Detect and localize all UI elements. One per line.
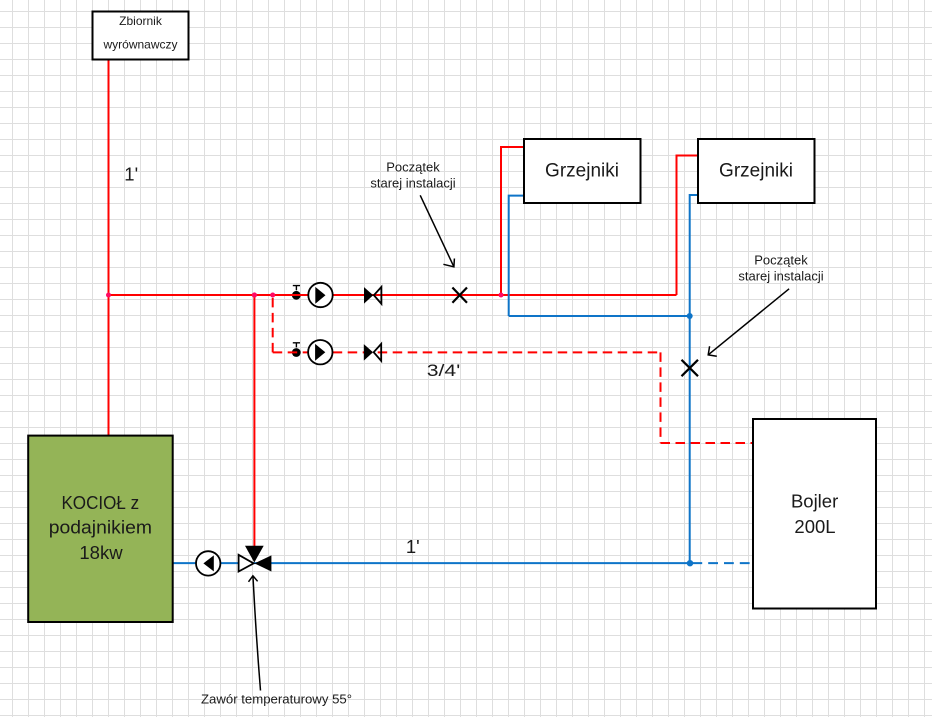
- label: Poczatek starej instalacji (right): [738, 252, 823, 283]
- node: pink junction dot left end of main red pipe: [106, 293, 111, 298]
- wire: red riser to Grzejniki 2: [677, 156, 699, 296]
- arrow from right label to X cut mark on blue riser: [708, 289, 789, 356]
- box: KOCIOL z podajnikiem 18kw (boiler): [28, 436, 173, 622]
- svg-text:Początek: Początek: [386, 159, 440, 174]
- node: pink junction dot red dashed pipe: [270, 293, 275, 298]
- svg-text:podajnikiem: podajnikiem: [49, 517, 152, 538]
- svg-text:wyrównawczy: wyrównawczy: [102, 37, 177, 51]
- wire: blue riser from Grzejniki 1: [509, 196, 524, 316]
- svg-text:starej instalacji: starej instalacji: [370, 175, 455, 190]
- node: blue junction dot lower: [687, 560, 693, 566]
- wire: blue main return horizontal pipe 1': [173, 562, 690, 564]
- pump P1 on red supply: [308, 283, 332, 307]
- svg-text:Grzejniki: Grzejniki: [719, 160, 793, 181]
- wire: red main supply horizontal pipe: [109, 294, 677, 296]
- box: Zbiornik wyrownawczy: [93, 12, 189, 60]
- svg-text:Zbiornik: Zbiornik: [119, 14, 163, 28]
- label: Poczatek starej instalacji (left): [370, 159, 455, 190]
- arrow from bottom label to three-way valve: [249, 576, 261, 691]
- wire: blue dashed pipe to Bojler: [692, 562, 753, 564]
- svg-text:3/4': 3/4': [427, 361, 461, 380]
- three-way thermostatic valve: [239, 546, 272, 572]
- svg-text:starej instalacji: starej instalacji: [738, 269, 823, 284]
- svg-text:1': 1': [124, 164, 138, 185]
- wire: red pipe vertical from Zbiornik to KOCIOL boiler: [108, 60, 110, 436]
- valve V2 on dashed pipe: [364, 344, 381, 361]
- pump P2 on dashed pipe: [308, 340, 332, 364]
- wire: red drop pipe to three-way valve: [253, 295, 255, 546]
- wire: blue riser from Grzejniki 2 down to main return: [690, 195, 698, 563]
- svg-text:KOCIOŁ z: KOCIOŁ z: [61, 492, 139, 513]
- wire: red dashed pipe 3/4' to Bojler: [272, 295, 274, 352]
- svg-text:Grzejniki: Grzejniki: [545, 160, 619, 181]
- node: blue junction dot upper: [687, 313, 693, 319]
- svg-text:200L: 200L: [794, 516, 835, 537]
- node: pink junction dot riser Grzejniki 1: [499, 293, 504, 298]
- svg-text:Bojler: Bojler: [791, 490, 838, 511]
- wire: blue horizontal connector: [509, 315, 690, 317]
- wire: red riser to Grzejniki 1: [501, 147, 524, 295]
- svg-text:1': 1': [406, 536, 420, 557]
- node: pink junction dot red drop pipe: [252, 292, 257, 297]
- X cut mark on red supply (old installation start): [452, 288, 467, 303]
- svg-text:18kw: 18kw: [79, 542, 123, 563]
- X cut mark on blue riser (old installation start): [682, 360, 699, 376]
- thermometer T1 on red supply: [292, 286, 301, 300]
- box: Grzejniki 1: [524, 139, 641, 203]
- box: Grzejniki 2: [698, 139, 815, 203]
- svg-text:Początek: Początek: [754, 252, 808, 267]
- pump P3 on blue return: [196, 551, 220, 575]
- valve V1 on red supply: [364, 287, 381, 304]
- svg-text:Zawór temperaturowy 55°: Zawór temperaturowy 55°: [201, 692, 352, 707]
- box: Bojler 200L: [753, 419, 876, 609]
- thermometer T2 on dashed pipe: [292, 343, 301, 357]
- arrow from left label to X cut mark: [420, 195, 454, 266]
